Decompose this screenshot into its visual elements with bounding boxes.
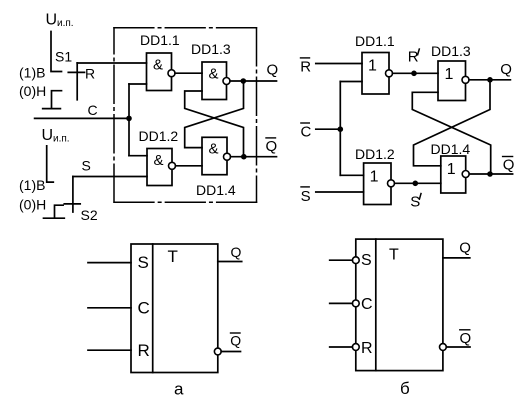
junction R' [411,71,417,77]
gate DD1.3 [191,41,231,100]
svg-text:R: R [138,341,150,360]
switch S2 wiper [64,177,80,213]
gate DD1.1 right [355,33,395,94]
svg-text:DD1.1: DD1.1 [355,33,395,49]
wire S' [395,182,441,184]
flip-flop symbol a body [131,244,218,373]
svg-text:1: 1 [370,168,379,185]
wire Qbar right [469,173,512,175]
junction Q left [241,78,247,84]
svg-text:S: S [301,188,311,205]
junction S' [413,181,419,187]
label Qbar left [266,138,278,155]
svg-text:DD1.4: DD1.4 [196,182,236,198]
svg-text:а: а [174,379,184,398]
svg-text:S2: S2 [81,207,98,223]
output bubble Qbar (a) [214,348,221,355]
svg-text:Q: Q [500,61,512,78]
svg-text:U: U [46,12,58,29]
svg-text:Q: Q [459,240,471,257]
svg-text:R: R [300,59,311,76]
svg-text:и.п.: и.п. [57,18,74,29]
wire Qbar left [231,156,277,158]
wire DD1.2 upper input from C [129,155,147,157]
svg-text:Q: Q [460,330,472,347]
svg-text:DD1.3: DD1.3 [431,43,471,59]
feedback Q to DD1.4 right [414,80,491,166]
flip-flop symbol b body [356,239,443,371]
input stub S (b) [330,259,353,261]
svg-text:Q: Q [267,62,279,79]
svg-text:T: T [389,247,399,264]
output stub Q (b) [443,257,470,259]
junction Cbar [338,126,344,132]
svg-text:(1)В: (1)В [19,177,45,193]
wire Q right [469,79,510,81]
switch S1 wiper [68,63,84,100]
wire S [73,176,147,178]
wire DD1.1 lower input from C [129,83,147,85]
svg-text:R: R [408,49,419,66]
svg-text:и.п.: и.п. [53,134,70,145]
output bubble Qbar (b) [440,344,447,351]
junction C [126,116,132,122]
svg-text:Q: Q [230,332,241,348]
wire R' [393,72,439,74]
ground upper [43,91,62,109]
input bubble C (b) [352,300,359,307]
svg-text:DD1.1: DD1.1 [140,32,180,48]
gate DD1.2 right [355,146,395,205]
input bubble R (b) [352,344,359,351]
svg-text:S: S [361,252,372,269]
label Qbar right [503,157,515,174]
wire R [77,62,146,64]
svg-text:R: R [85,65,95,81]
svg-text:DD1.2: DD1.2 [355,146,395,162]
svg-text:(1)В: (1)В [19,65,45,81]
svg-text:S1: S1 [55,49,72,65]
wire C [35,84,129,156]
svg-text:Q: Q [231,244,242,260]
svg-text:U: U [42,127,54,144]
svg-text:Q: Q [266,138,278,155]
input stub R (a) [88,349,131,351]
label Qbar (b) [460,330,472,347]
input bubble S (b) [352,257,359,264]
svg-text:S: S [138,253,149,272]
junction Qbar left [241,154,247,160]
wire U to S1 upper contact [51,32,62,72]
feedback Qbar to DD1.3 right [412,92,490,174]
svg-text:&: & [209,65,219,82]
svg-text:DD1.2: DD1.2 [139,128,179,144]
input stub S (a) [88,262,131,264]
svg-text:&: & [209,141,219,158]
svg-text:Q: Q [503,157,515,174]
gate DD1.2 [139,128,179,186]
svg-text:б: б [400,379,410,398]
svg-text:DD1.4: DD1.4 [431,141,471,157]
svg-text:(0)Н: (0)Н [19,197,46,213]
svg-text:(0)Н: (0)Н [19,83,46,99]
svg-text:1: 1 [447,161,456,178]
gate DD1.3 right [431,43,471,101]
supply label U_ип upper [46,12,74,30]
svg-text:S: S [410,194,420,211]
wire DD1.1r lower input from Cbar [340,81,362,83]
output stub Qbar (a) [221,351,240,353]
gate DD1.1 [140,32,180,91]
svg-text:C: C [88,102,98,118]
svg-text:&: & [154,152,164,169]
feedback Qbar to DD1.3 [185,91,244,157]
wire DD1.1 out to DD1.3 [175,72,202,74]
wire DD1.2r upper input from Cbar [340,174,363,176]
wire Rbar [316,63,362,65]
supply label U_ип lower [42,127,70,145]
wire Sbar [316,191,364,193]
svg-text:1: 1 [368,57,377,74]
svg-text:DD1.3: DD1.3 [191,41,231,57]
wire Cbar [316,82,341,176]
label Sbar [301,187,311,205]
svg-text:R: R [361,340,373,357]
label Cbar [301,123,312,140]
label Qbar (a) [230,332,241,348]
feedback Q to DD1.4 [185,81,244,148]
output stub Q (a) [218,261,242,263]
input stub C (a) [88,307,131,309]
svg-text:T: T [168,247,178,266]
junction Qbar right [487,171,493,177]
input stub R (b) [330,346,353,348]
wire U to S2 upper contact [47,146,54,182]
svg-text:C: C [138,298,150,317]
output stub Qbar (b) [446,346,470,348]
gate DD1.4 [196,137,236,198]
wire Q left [230,80,277,82]
svg-text:S: S [82,157,91,173]
svg-text:C: C [301,123,312,140]
gate DD1.4 right [431,141,471,193]
ground lower [44,205,65,218]
svg-text:1: 1 [445,66,454,83]
label Rbar [300,58,311,76]
input stub C (b) [330,302,353,304]
svg-text:C: C [361,296,373,313]
junction Q right [487,77,493,83]
svg-text:&: & [153,56,163,73]
wire DD1.2 out to DD1.4 [176,165,203,167]
dash-dot enclosure DD1 [114,28,257,203]
